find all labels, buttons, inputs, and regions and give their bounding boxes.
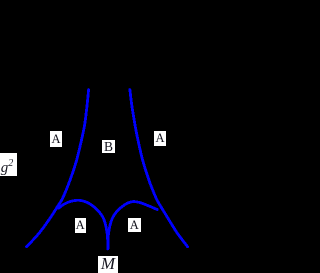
node A bottom-right label bbox=[128, 218, 141, 232]
node A top-left label bbox=[50, 131, 62, 147]
funnel / cusp region of modular torus diagram bbox=[0, 0, 211, 273]
node g^2 label bbox=[0, 153, 17, 176]
node B center label bbox=[102, 140, 115, 153]
wire right bump arc bbox=[108, 202, 157, 249]
node A bottom-left label bbox=[75, 218, 86, 233]
node M cusp label bbox=[98, 256, 118, 273]
wire left boundary curve bbox=[27, 90, 89, 247]
node A top-right label bbox=[154, 131, 166, 146]
wire right boundary curve bbox=[130, 90, 188, 247]
wire left bump arc bbox=[59, 200, 108, 249]
